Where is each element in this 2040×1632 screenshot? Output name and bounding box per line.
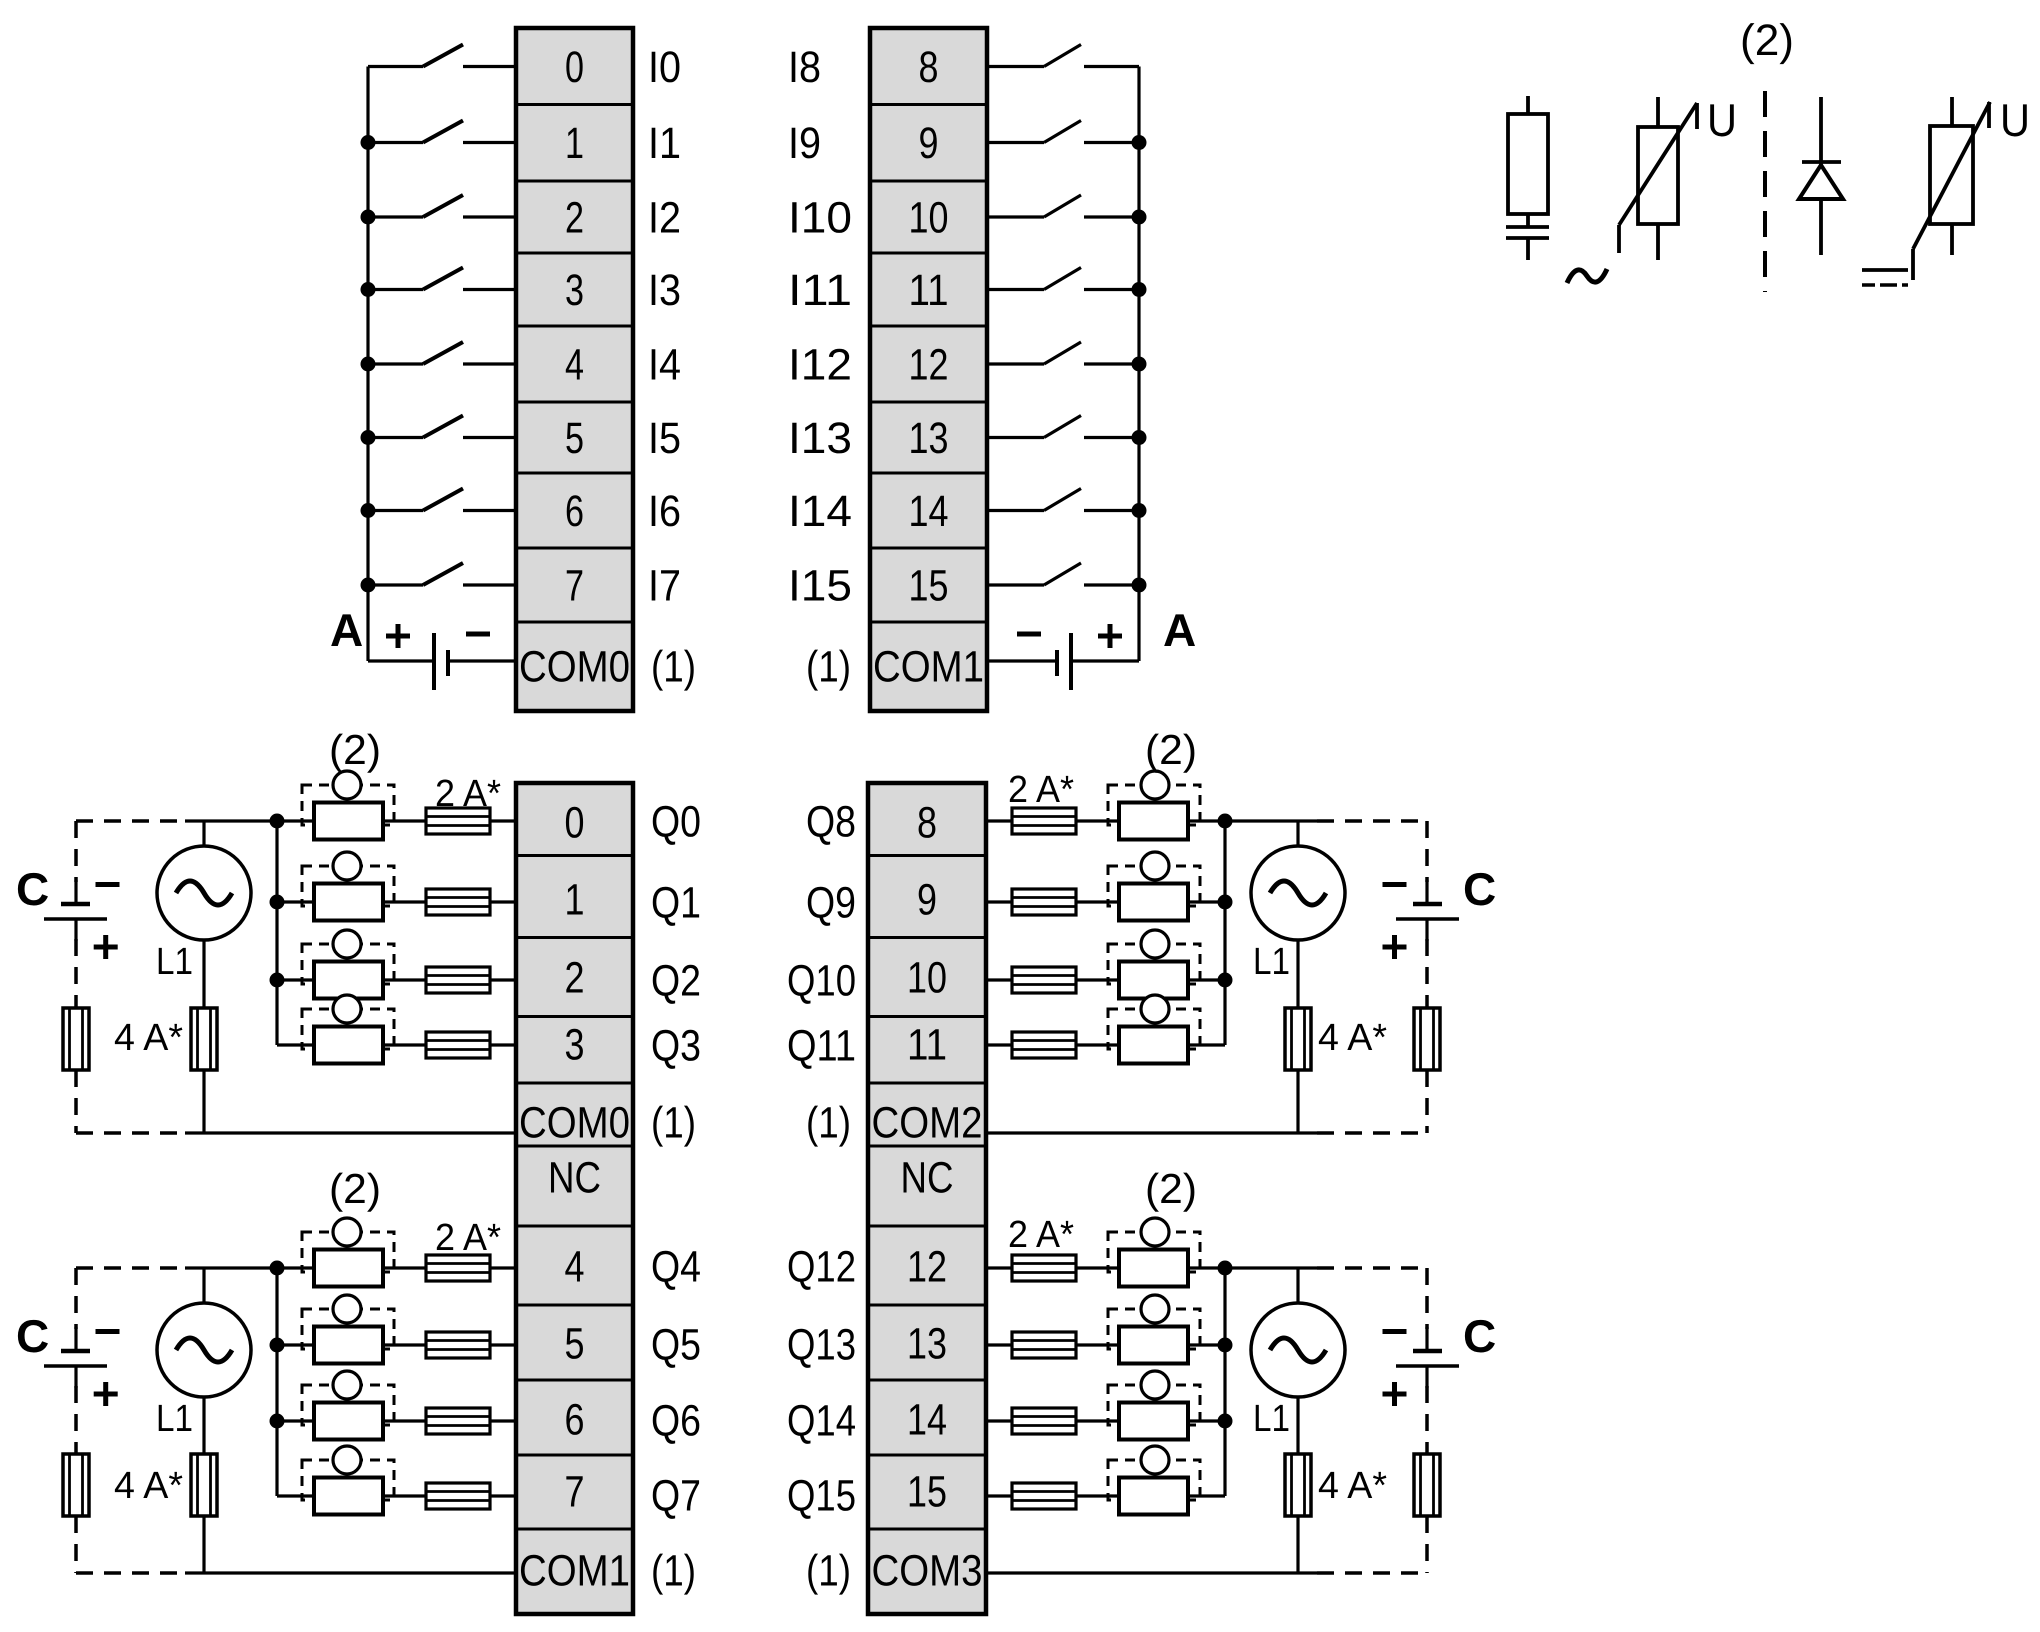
svg-text:9: 9: [917, 876, 937, 925]
svg-text:NC: NC: [901, 1154, 954, 1203]
svg-text:(1): (1): [806, 1099, 851, 1148]
svg-text:4 A*: 4 A*: [1318, 1017, 1387, 1059]
svg-text:0: 0: [565, 799, 585, 848]
svg-text:14: 14: [907, 1396, 947, 1445]
svg-text:C: C: [16, 863, 49, 915]
svg-text:Q12: Q12: [787, 1243, 856, 1292]
svg-text:U: U: [2000, 94, 2030, 146]
svg-text:2 A*: 2 A*: [1008, 1214, 1074, 1256]
svg-text:4 A*: 4 A*: [1318, 1465, 1387, 1507]
svg-text:I1: I1: [648, 119, 681, 168]
svg-text:3: 3: [565, 266, 584, 315]
svg-text:I14: I14: [788, 487, 852, 536]
svg-text:13: 13: [907, 1320, 947, 1369]
svg-text:(1): (1): [651, 643, 696, 692]
svg-text:I9: I9: [788, 119, 821, 168]
svg-text:(2): (2): [1145, 1165, 1197, 1212]
svg-text:L1: L1: [1253, 941, 1290, 983]
svg-text:Q11: Q11: [787, 1022, 856, 1071]
svg-text:3: 3: [565, 1021, 585, 1070]
svg-text:8: 8: [917, 799, 937, 848]
svg-text:I15: I15: [788, 562, 852, 611]
svg-text:I8: I8: [788, 43, 821, 92]
svg-text:6: 6: [565, 1396, 585, 1445]
svg-text:I4: I4: [648, 341, 681, 390]
svg-text:7: 7: [565, 562, 584, 611]
svg-text:COM2: COM2: [872, 1099, 983, 1148]
svg-text:I0: I0: [648, 43, 681, 92]
svg-text:4: 4: [565, 341, 584, 390]
svg-text:4: 4: [565, 1243, 585, 1292]
svg-text:NC: NC: [548, 1154, 601, 1203]
svg-text:Q4: Q4: [651, 1243, 701, 1292]
svg-text:U: U: [1707, 94, 1737, 146]
svg-text:4 A*: 4 A*: [114, 1017, 183, 1059]
svg-text:(2): (2): [1145, 726, 1197, 773]
svg-text:Q3: Q3: [651, 1022, 701, 1071]
svg-text:11: 11: [907, 1021, 947, 1070]
svg-text:Q8: Q8: [806, 798, 856, 847]
svg-text:Q0: Q0: [651, 798, 701, 847]
svg-text:I6: I6: [648, 487, 681, 536]
svg-text:I12: I12: [788, 341, 852, 390]
svg-text:Q13: Q13: [787, 1321, 856, 1370]
svg-text:I10: I10: [788, 194, 852, 243]
svg-text:15: 15: [907, 1468, 947, 1517]
svg-text:L1: L1: [156, 941, 193, 983]
svg-text:(2): (2): [329, 1165, 381, 1212]
svg-text:8: 8: [919, 43, 939, 92]
svg-text:I11: I11: [788, 266, 852, 315]
svg-text:Q6: Q6: [651, 1397, 701, 1446]
svg-text:(1): (1): [806, 1547, 851, 1596]
svg-text:10: 10: [907, 954, 947, 1003]
svg-text:L1: L1: [156, 1398, 193, 1440]
svg-text:12: 12: [907, 1243, 947, 1292]
svg-text:I5: I5: [648, 414, 681, 463]
svg-text:C: C: [16, 1310, 49, 1362]
svg-text:COM3: COM3: [872, 1547, 983, 1596]
svg-text:C: C: [1463, 863, 1496, 915]
svg-text:4 A*: 4 A*: [114, 1465, 183, 1507]
svg-text:0: 0: [565, 43, 584, 92]
svg-text:(2): (2): [1740, 16, 1794, 65]
svg-text:2: 2: [565, 954, 585, 1003]
svg-text:L1: L1: [1253, 1398, 1290, 1440]
svg-text:COM0: COM0: [519, 643, 630, 692]
svg-text:9: 9: [919, 119, 939, 168]
svg-text:A: A: [330, 604, 363, 656]
svg-text:I2: I2: [648, 194, 681, 243]
svg-text:I13: I13: [788, 414, 852, 463]
svg-text:Q15: Q15: [787, 1472, 856, 1521]
svg-text:Q14: Q14: [787, 1397, 856, 1446]
svg-text:COM0: COM0: [519, 1099, 630, 1148]
svg-text:7: 7: [565, 1468, 585, 1517]
svg-text:C: C: [1463, 1310, 1496, 1362]
svg-text:Q10: Q10: [787, 957, 856, 1006]
svg-text:Q9: Q9: [806, 879, 856, 928]
svg-text:2 A*: 2 A*: [435, 773, 501, 815]
svg-text:2: 2: [565, 194, 584, 243]
svg-text:COM1: COM1: [873, 643, 984, 692]
svg-text:COM1: COM1: [519, 1547, 630, 1596]
svg-text:6: 6: [565, 487, 584, 536]
svg-text:(1): (1): [651, 1099, 696, 1148]
svg-text:5: 5: [565, 414, 584, 463]
svg-text:1: 1: [565, 876, 585, 925]
svg-text:2 A*: 2 A*: [1008, 769, 1074, 811]
svg-text:13: 13: [909, 414, 949, 463]
svg-text:I3: I3: [648, 266, 681, 315]
svg-text:11: 11: [909, 266, 949, 315]
svg-text:12: 12: [909, 341, 949, 390]
svg-text:Q7: Q7: [651, 1472, 701, 1521]
svg-text:10: 10: [909, 194, 949, 243]
svg-text:Q1: Q1: [651, 879, 701, 928]
svg-text:(1): (1): [806, 643, 851, 692]
svg-text:A: A: [1163, 604, 1196, 656]
svg-text:1: 1: [565, 119, 584, 168]
svg-text:5: 5: [565, 1320, 585, 1369]
svg-text:(2): (2): [329, 726, 381, 773]
svg-text:I7: I7: [648, 562, 681, 611]
svg-text:2 A*: 2 A*: [435, 1217, 501, 1259]
svg-text:Q2: Q2: [651, 957, 701, 1006]
svg-text:(1): (1): [651, 1547, 696, 1596]
svg-text:15: 15: [909, 562, 949, 611]
svg-text:Q5: Q5: [651, 1321, 701, 1370]
svg-text:14: 14: [909, 487, 949, 536]
